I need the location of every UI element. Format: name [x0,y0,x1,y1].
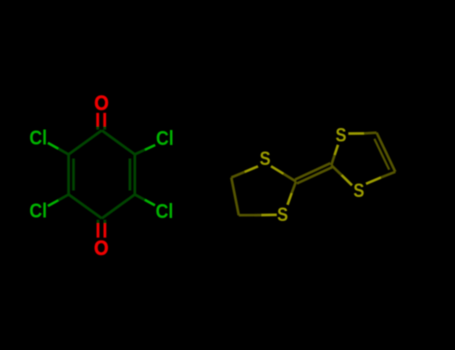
bond C2-Cl upper-right: dark half [135,150,145,155]
C4=O bottom double bond red lines [98,223,105,237]
ring edge C6-C1 [69,130,102,154]
bond C5-Cl lower-left: dark half [58,195,68,201]
ring A bond S2-C4 sulfur half [262,214,277,217]
bond C5-Cl lower-left: bright half [48,200,58,206]
svg-text:Cl: Cl [156,128,174,151]
bond C6-Cl upper-left: bright half [48,143,58,149]
central C2=C2' double bond line 1 [297,167,332,183]
ring B bond C2'-S4 sulfur half [342,175,352,185]
ring B double bond inner line C4'=C5' [374,139,389,170]
ring A bond S1-C2 carbon half [284,174,297,182]
ring A bond S1-C2 sulfur half [271,166,284,174]
ring B edge C4'-C5' [377,133,396,172]
ring edge C5-C6 [67,154,70,194]
ring edge C2-C3 [133,154,136,194]
ring edge C1-C2 [102,130,135,154]
svg-text:Cl: Cl [156,201,174,224]
ring A edge C4-C5 [231,178,239,216]
ring B bond S3-C4' sulfur half [348,132,364,135]
svg-text:O: O [94,92,109,116]
bond C2-Cl upper-right: bright half [145,145,155,150]
ring A bond S1-C5 carbon half [231,172,244,178]
svg-text:O: O [94,237,109,261]
C1=O top dark green tips [98,126,105,129]
ring B bond S3-C4' carbon half [364,131,377,134]
bond C3-Cl lower-right: dark half [135,195,145,200]
ring A bond S1-C5 sulfur half [245,166,258,172]
svg-text:S: S [336,124,347,146]
C1=O top double bond red lines [98,113,105,127]
ring A bond S2-C2 carbon half [292,182,296,194]
svg-text:S: S [260,148,271,170]
ring B bond C2'-S4 carbon half [331,165,341,175]
ring B bond C2'-S3 carbon half [331,155,334,165]
svg-text:Cl: Cl [29,201,47,224]
double bond inner line C2=C3 [129,159,132,191]
bond C3-Cl lower-right: bright half [145,200,155,206]
ring edge C3-C4 [102,195,135,219]
ring A bond S2-C2 sulfur half [288,193,292,205]
double bond inner line C5=C6 [72,159,75,191]
svg-text:Cl: Cl [29,128,47,151]
ring A bond S2-C4 carbon half [239,214,262,217]
ring edge C4-C5 [69,195,102,219]
ring B bond S4-C5' carbon half [381,172,395,178]
bond C6-Cl upper-left: dark half [58,149,68,155]
ring B bond C2'-S3 sulfur half [335,145,338,155]
svg-text:S: S [277,204,288,226]
svg-text:S: S [353,180,364,202]
C4=O bottom dark green tips [98,220,105,223]
ring B bond S4-C5' sulfur half [366,177,381,183]
central C2=C2' double bond line 2 [295,163,330,179]
